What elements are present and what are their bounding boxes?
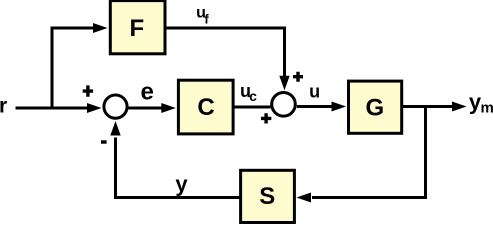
svg-text:u: u — [309, 82, 320, 102]
svg-text:f: f — [204, 11, 209, 26]
svg-text:S: S — [259, 183, 275, 210]
svg-text:r: r — [0, 95, 7, 118]
svg-text:c: c — [249, 88, 257, 104]
svg-text:e: e — [141, 78, 154, 105]
svg-text:C: C — [197, 94, 214, 121]
svg-text:F: F — [129, 15, 144, 42]
svg-text:G: G — [365, 94, 384, 121]
svg-text:y: y — [175, 171, 188, 196]
svg-text:m: m — [481, 100, 493, 117]
